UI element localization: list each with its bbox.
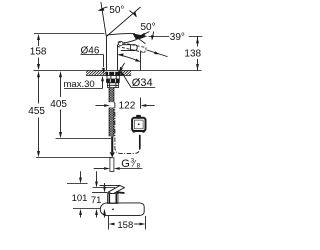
G 3/8 width arrows	[94, 167, 143, 170]
mounting nut (white)	[107, 76, 119, 80]
locknut (dark)	[106, 79, 120, 83]
second view: lever handle (pill shape)	[100, 203, 144, 216]
spout nose with aerator	[121, 45, 137, 51]
svg-text:405: 405	[50, 99, 67, 110]
dimension 138	[184, 37, 201, 71]
dimension 158 (second view width)	[109, 216, 146, 231]
dimension D46 (body diameter)	[81, 45, 125, 74]
hose end connector box	[132, 115, 145, 133]
flexible hose (braided) upper part	[109, 88, 114, 103]
flexible hose (braided) lower part	[109, 108, 114, 137]
second view: spout top edge line	[100, 184, 120, 186]
angle leg below lever tip	[139, 39, 146, 44]
svg-text:50°: 50°	[141, 22, 156, 33]
hose outline	[109, 88, 114, 137]
threaded shank	[108, 83, 119, 88]
angle arc below lever	[118, 55, 139, 62]
svg-text:50°: 50°	[109, 5, 124, 16]
angle 50 deg upper: arc and arrows	[99, 6, 137, 17]
dimension 455	[28, 71, 45, 157]
second view bottom extension line	[73, 208, 100, 210]
svg-text:8: 8	[137, 162, 141, 169]
svg-text:158: 158	[117, 220, 133, 231]
dimension max.30 (counter thickness)	[64, 76, 104, 90]
vertical extension line right of faucet	[140, 51, 142, 71]
second view: dimension 71 extension lines	[93, 187, 116, 189]
counter cross-section hatching	[86, 75, 131, 77]
svg-text:158: 158	[30, 47, 47, 58]
hose swing path (dash-dot)	[115, 104, 140, 154]
lever handle (closed position)	[109, 34, 135, 35]
svg-text:138: 138	[184, 48, 201, 59]
hose end stub below box	[139, 135, 141, 149]
lever handle open position (dashed)	[118, 42, 146, 48]
label G 3/8	[121, 157, 140, 170]
extension line 405 bottom	[56, 138, 112, 140]
second view: dimension 101	[67, 171, 88, 217]
base flange in counter hole (dark)	[106, 72, 121, 76]
lever axis extension line	[147, 50, 168, 57]
center mark	[112, 209, 114, 211]
second view: spout top plate	[108, 186, 124, 195]
svg-text:39°: 39°	[170, 32, 185, 43]
angle 50 deg upper: legs	[101, 2, 106, 36]
angle 50 deg lower: arcs and arrows	[141, 32, 150, 36]
hose tapered end	[111, 136, 113, 152]
hose swing path hook	[114, 103, 115, 104]
angle 39 deg leader lines	[149, 36, 203, 38]
svg-text:122: 122	[119, 101, 136, 112]
dimension 405	[50, 71, 67, 138]
svg-text:71: 71	[91, 195, 102, 206]
svg-text:455: 455	[28, 106, 45, 117]
dimension 122	[96, 98, 155, 112]
dimension 158 (height)	[30, 34, 47, 71]
counter top surface line	[34, 70, 202, 72]
extension line top of faucet	[34, 33, 105, 35]
faucet body	[107, 35, 110, 70]
G 3/8 connector end	[110, 158, 114, 172]
svg-text:G: G	[121, 158, 130, 170]
dimension D34 (shank)	[120, 70, 155, 89]
second view: faucet neck	[108, 194, 118, 204]
extension line 455 bottom (hose end plane)	[36, 157, 112, 159]
svg-text:101: 101	[72, 193, 88, 204]
